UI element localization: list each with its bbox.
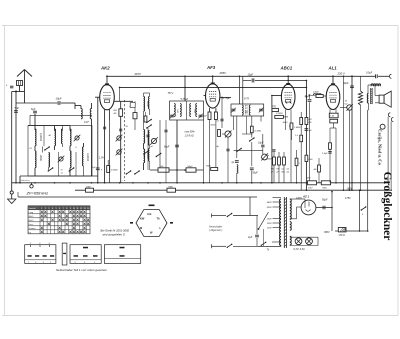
- wire osc vertical: [159, 120, 161, 170]
- tube ABC1: [281, 84, 295, 109]
- rail 267V: [107, 75, 375, 77]
- svg-text:NR: NR: [114, 110, 118, 112]
- svg-text:Gramm.: Gramm.: [29, 228, 37, 230]
- svg-text:3: 3: [48, 208, 49, 210]
- wire ABC1 top right: [288, 79, 306, 81]
- phono terminal 1: [388, 113, 390, 117]
- voltage selector arrow: [259, 212, 269, 229]
- svg-text:7400: 7400: [168, 185, 174, 188]
- svg-text:Erdbuchse: Erdbuchse: [20, 180, 31, 182]
- svg-text:( Allgemein ): ( Allgemein ): [209, 229, 223, 232]
- mains wire 1: [212, 215, 227, 217]
- svg-text:NR: NR: [309, 119, 313, 121]
- svg-text:11: 11: [77, 208, 79, 210]
- svg-text:1MΩ: 1MΩ: [206, 166, 211, 168]
- output transformer core: [370, 88, 372, 104]
- svg-text:2000: 2000: [39, 154, 43, 161]
- capacitor earth lead: [10, 85, 13, 87]
- svg-text:Ant: Ant: [147, 212, 151, 216]
- resistor x145 small: [144, 116, 147, 122]
- wafer box A: [25, 245, 56, 264]
- wire AF3 cathode pins: [209, 108, 211, 112]
- coil 0.003: [314, 94, 322, 95]
- resistor 770: [272, 108, 278, 111]
- capacitor 30uF on right column: [305, 128, 309, 130]
- trimmer T1: [59, 157, 63, 161]
- tone cap variable: [262, 154, 268, 160]
- resistor 1M: [290, 123, 293, 129]
- svg-text:5: 5: [56, 208, 57, 210]
- svg-text:4Ω: 4Ω: [309, 121, 312, 124]
- IF transformer 2 box: [231, 104, 264, 116]
- switch osc pack 1: [126, 171, 130, 174]
- svg-text:0,1MΩ: 0,1MΩ: [255, 131, 262, 133]
- osc coil column B2: [148, 149, 149, 162]
- wire y170 row: [150, 169, 204, 171]
- svg-text:2kΩ: 2kΩ: [308, 159, 313, 161]
- svg-text:1,5MΩ: 1,5MΩ: [294, 127, 301, 129]
- svg-text:110V: 110V: [267, 228, 272, 230]
- svg-text:2000: 2000: [146, 100, 149, 107]
- wire IF2 drops: [233, 116, 235, 130]
- switch box under AK2: [130, 103, 135, 108]
- wire transformer down: [367, 110, 369, 231]
- page edge bottom: [2, 315, 398, 317]
- wire osc right vertical: [165, 120, 167, 183]
- switch AF: [250, 138, 254, 141]
- resistor trio b: [278, 157, 281, 165]
- svg-text:kΩ: kΩ: [345, 104, 348, 106]
- trimmer osc: [151, 138, 156, 143]
- contact table: [28, 206, 90, 234]
- IF1 coil a: [174, 104, 175, 117]
- wire earth lead: [11, 92, 13, 191]
- terminal dial lamp: [30, 185, 33, 188]
- svg-text:10µF: 10µF: [248, 74, 254, 77]
- svg-text:1,5V: 1,5V: [99, 157, 104, 160]
- svg-text:0,1: 0,1: [217, 121, 220, 123]
- IF1 trimmer caps: [170, 114, 174, 116]
- switch osc: [156, 154, 160, 157]
- svg-text:0,003: 0,003: [313, 92, 319, 94]
- svg-text:0,0003: 0,0003: [39, 133, 43, 141]
- phono terminal 2: [391, 118, 393, 122]
- bus 185V: [75, 189, 390, 191]
- wire column 343.5: [343, 76, 345, 190]
- resistor NR col301: [300, 118, 303, 125]
- wire IF1 left drop: [176, 120, 178, 183]
- IF2 end caps: [232, 108, 236, 110]
- mains wire 2: [212, 245, 227, 247]
- speaker: [379, 95, 384, 103]
- coil L2: [35, 151, 36, 168]
- ABC1 diode marks: [285, 102, 287, 104]
- capacitor grid AK2 small: [119, 128, 122, 130]
- ground: [8, 199, 16, 204]
- IF1 coil c: [190, 104, 191, 117]
- coil pack box: [28, 126, 92, 177]
- capacitor x133 small: [103, 126, 106, 128]
- wire switch row: [234, 149, 263, 151]
- svg-text:1,5µF: 1,5µF: [322, 153, 328, 155]
- switch contact S1: [45, 147, 49, 150]
- svg-text:2400: 2400: [85, 185, 92, 188]
- svg-text:Kontakt: Kontakt: [29, 207, 36, 210]
- resistor heater chain: [86, 188, 94, 192]
- svg-text:4: 4: [52, 208, 53, 210]
- svg-text:max 50%: max 50%: [185, 131, 196, 134]
- capacitor near pot: [226, 148, 229, 150]
- transformer rect heater winding: [290, 222, 291, 231]
- resistor 1k: [158, 168, 169, 172]
- page edge right: [397, 26, 399, 316]
- wire bus3 to switch: [249, 197, 251, 216]
- svg-text:M: M: [140, 226, 142, 230]
- svg-text:1: 1: [41, 208, 42, 210]
- svg-text:0,1: 0,1: [30, 148, 33, 150]
- wire input coil top: [144, 92, 150, 94]
- tuning cap C-gang2: [117, 150, 121, 154]
- resistor 0.3M right of ABC1: [329, 143, 332, 150]
- coil L5: [70, 151, 71, 168]
- svg-text:wird ausgeliefert Ü: wird ausgeliefert Ü: [103, 232, 125, 236]
- resistor 0.1M: [250, 126, 253, 133]
- transformer primary: [280, 199, 281, 245]
- coil choke small: [237, 165, 238, 174]
- resistor pad: [133, 113, 137, 119]
- resistor AF3 k2: [214, 112, 217, 120]
- potentiometer: [225, 131, 231, 137]
- svg-text:1kΩ: 1kΩ: [160, 166, 164, 168]
- wire osc mid vertical: [147, 128, 149, 170]
- wire AK2 anode right: [114, 100, 133, 102]
- wire to coil pack: [16, 102, 57, 104]
- antenna series capacitor: [17, 81, 23, 86]
- switch mains 2: [227, 244, 231, 247]
- wafer box B: [70, 245, 101, 264]
- table x marks: [41, 211, 90, 233]
- IF1 coil d: [196, 104, 197, 117]
- resistor AL1 grid: [316, 95, 323, 98]
- resistor 4ohm col306: [305, 118, 308, 125]
- wire coil pack mid verticals: [43, 126, 45, 147]
- resistor trio a: [273, 157, 276, 165]
- IF2 coil b: [249, 105, 250, 115]
- resistor AL1 cathode: [329, 113, 338, 118]
- svg-text:6: 6: [59, 208, 60, 210]
- svg-text:50µF: 50µF: [202, 116, 208, 118]
- resistor 2k col306: [305, 155, 308, 161]
- junction dots rails: [119, 87, 121, 89]
- svg-text:4Ω: 4Ω: [114, 112, 117, 115]
- svg-text:Kurz: Kurz: [29, 224, 33, 226]
- resistor 7k: [186, 168, 196, 172]
- svg-text:7: 7: [63, 208, 64, 210]
- coil L3b: [49, 153, 50, 168]
- heater wires: [290, 236, 318, 238]
- svg-text:9: 9: [70, 208, 71, 210]
- svg-text:AZ 1: AZ 1: [302, 195, 310, 199]
- IF transformer 1 box: [170, 101, 204, 120]
- svg-text:265V: 265V: [219, 71, 228, 75]
- switch mains 1: [227, 214, 231, 217]
- capacitor 2uF mains: [255, 234, 259, 236]
- svg-text:267V: 267V: [134, 72, 143, 76]
- IF1 coil b: [180, 104, 181, 117]
- voltage taps: [273, 201, 282, 203]
- switch osc upper 2: [147, 125, 151, 128]
- IF2 core dashes: [245, 105, 247, 115]
- capacitor 2u: [235, 160, 239, 162]
- wire ABC1 heater drop: [284, 115, 286, 130]
- antenna coil T0 left winding: [81, 109, 82, 119]
- wire ABC1 pins down: [284, 110, 286, 116]
- pilot lamp 2: [306, 238, 313, 245]
- svg-text:KW: KW: [140, 217, 145, 221]
- IF2 coil a: [242, 105, 243, 115]
- wafer spacer N: [62, 243, 67, 265]
- transformer heater winding: [290, 236, 291, 245]
- terminal top right: [389, 74, 391, 78]
- wire IF2 feed pair: [239, 76, 241, 104]
- svg-text:5µF: 5µF: [15, 106, 20, 110]
- tube AK2: [100, 85, 115, 110]
- svg-text:240V: 240V: [266, 201, 273, 204]
- switch osc2: [144, 151, 148, 154]
- svg-text:13: 13: [84, 208, 86, 210]
- switch Tk: [261, 242, 265, 245]
- svg-text:0,1MΩ: 0,1MΩ: [111, 170, 118, 172]
- capacitor 50uF PSU: [322, 206, 324, 210]
- switch osc pack 2: [135, 171, 139, 174]
- bus chassis: [12, 182, 390, 184]
- svg-text:2µF: 2µF: [247, 236, 253, 239]
- wire upper shelf: [30, 114, 92, 116]
- hexagon socket: [136, 210, 167, 237]
- svg-text:220V: 220V: [266, 207, 273, 209]
- wire AK2 anode to rail: [106, 76, 108, 84]
- pilot lamp 1: [295, 238, 302, 245]
- resistor right small: [295, 158, 298, 166]
- antenna coil T0 right winding: [90, 109, 91, 119]
- svg-text:6µF: 6µF: [31, 108, 36, 111]
- svg-text:Czeija, Nissl u. Co: Czeija, Nissl u. Co: [378, 129, 383, 166]
- svg-text:ZF=658 kHz: ZF=658 kHz: [26, 191, 49, 196]
- wire ABC1 grid: [272, 95, 282, 97]
- wire HT right column: [351, 76, 353, 190]
- gang dashed link: [124, 100, 126, 181]
- wire AK2 pin2 long: [108, 120, 110, 183]
- svg-text:2µF: 2µF: [91, 167, 96, 169]
- svg-text:TA: TA: [157, 217, 160, 221]
- wire coil pack bottom: [20, 175, 98, 177]
- svg-text:AL1: AL1: [328, 65, 338, 70]
- svg-text:14: 14: [87, 208, 89, 210]
- svg-text:10µF: 10µF: [56, 97, 62, 101]
- svg-text:0,0003: 0,0003: [86, 153, 90, 161]
- wire coil to AK2 grid: [91, 119, 93, 176]
- rail screen 76V: [120, 86, 307, 88]
- switch contact S3: [69, 168, 73, 171]
- svg-text:5-75: 5-75: [244, 98, 249, 101]
- switch output: [361, 207, 365, 210]
- wire AL1 anode: [332, 76, 334, 84]
- osc coil column B1: [148, 131, 149, 146]
- svg-text:60µF: 60µF: [164, 146, 170, 149]
- hexagon left mark: [130, 222, 133, 224]
- resistor 0.1M ABC1: [275, 115, 284, 118]
- svg-text:50µF: 50µF: [188, 166, 194, 168]
- wire AVC top: [243, 79, 251, 81]
- tuning cap C-gang1: [117, 136, 121, 140]
- output transformer secondary: [367, 94, 368, 104]
- output transformer primary: [371, 84, 381, 85]
- svg-text:50µF: 50µF: [253, 173, 259, 175]
- wire AZ1 output: [316, 207, 332, 209]
- resistor 4ohm output: [318, 165, 321, 172]
- svg-text:ABC1: ABC1: [280, 65, 293, 70]
- wire AL1 pins: [329, 109, 331, 113]
- svg-text:Bei Gerät Nr 2051-3000: Bei Gerät Nr 2051-3000: [101, 228, 130, 232]
- wire HT vertical right: [331, 192, 333, 231]
- capacitor under AF3 mid: [220, 118, 223, 120]
- wire IF2 center tap: [245, 116, 247, 134]
- wire AF3 anode: [212, 76, 214, 83]
- coil L1: [35, 129, 36, 146]
- resistor 0.1M AK2: [107, 166, 110, 173]
- earth jack: [10, 191, 13, 194]
- input coil upper B: [148, 97, 149, 110]
- transformer core: [283, 197, 285, 248]
- oscillator coil A: [144, 130, 145, 144]
- capacitor 30uF HT: [350, 85, 354, 87]
- capacitor 60uF: [175, 144, 179, 146]
- svg-text:0,5µF: 0,5µF: [366, 71, 373, 74]
- capacitor 50uF: [250, 167, 254, 169]
- junction dots ABC1 right: [306, 96, 308, 98]
- bus mains: [18, 196, 257, 198]
- wire AK2 pin2: [108, 110, 110, 120]
- resistor trio c: [283, 157, 286, 165]
- svg-text:0,07: 0,07: [84, 121, 89, 124]
- svg-text:2: 2: [45, 208, 46, 210]
- field coil zigzag: [358, 91, 362, 105]
- svg-text:8: 8: [66, 208, 67, 210]
- capacitor 10uF antenna: [57, 101, 59, 105]
- wire antenna branch: [15, 92, 17, 183]
- input coil upper A: [144, 97, 145, 112]
- svg-text:10: 10: [73, 208, 75, 210]
- svg-text:1,5-5 kΩ: 1,5-5 kΩ: [185, 135, 194, 138]
- IF1 box divider: [185, 101, 187, 120]
- svg-text:Großglockner: Großglockner: [381, 172, 393, 241]
- antenna: [17, 70, 25, 77]
- page edge top: [2, 25, 398, 27]
- hexagon top mark: [149, 204, 155, 206]
- svg-text:2000: 2000: [210, 125, 216, 127]
- svg-text:30µF: 30µF: [343, 82, 349, 85]
- svg-text:0,1MΩ: 0,1MΩ: [276, 113, 283, 115]
- wire IF1 right drop: [203, 120, 205, 183]
- oscillator coil B: [144, 149, 145, 163]
- svg-text:12: 12: [80, 208, 82, 210]
- wire 2uF column: [256, 216, 258, 235]
- capacitor osc: [146, 134, 149, 136]
- wafer box C: [104, 245, 140, 264]
- jack circle: [380, 124, 385, 129]
- tube AF3: [206, 84, 220, 108]
- svg-text:140V: 140V: [296, 197, 302, 200]
- junction dots bus2: [306, 189, 308, 191]
- coil L4b: [61, 129, 62, 144]
- switch osc upper 1: [147, 120, 151, 123]
- tube AZ1: [301, 200, 316, 215]
- resistor 1M AF3 cathode: [211, 168, 218, 171]
- svg-text:170 Ω: 170 Ω: [339, 235, 345, 237]
- resistor 7400: [167, 188, 176, 192]
- wire 185V to switch column: [359, 190, 361, 231]
- wire AF3 grid: [204, 95, 206, 97]
- choke resistor hatched: [338, 228, 346, 232]
- wire AK2 cathode: [104, 110, 106, 183]
- svg-text:380V: 380V: [324, 231, 330, 234]
- tube AL1: [326, 85, 340, 110]
- wire AF3 anode right: [220, 96, 231, 98]
- svg-text:6,3V; 0,3A: 6,3V; 0,3A: [294, 248, 306, 251]
- resistor vol series: [218, 130, 221, 137]
- svg-text:AF3: AF3: [206, 65, 216, 70]
- coil L4: [70, 129, 71, 146]
- svg-text:125V: 125V: [267, 223, 273, 225]
- wire IF1 feed: [184, 76, 186, 101]
- wire HT to AZ1: [290, 198, 305, 200]
- transformer HT secondary: [290, 199, 291, 219]
- table header fill: [28, 206, 90, 210]
- svg-text:4Ω: 4Ω: [314, 168, 317, 171]
- wire AK2 grid left: [95, 96, 100, 98]
- switch tone: [237, 149, 241, 152]
- wire bottom HT: [335, 230, 368, 232]
- node antenna junction: [15, 91, 17, 93]
- coil L6: [82, 147, 83, 166]
- capacitor osc2: [164, 129, 167, 131]
- trimmer T2: [75, 136, 79, 140]
- svg-text:AK2: AK2: [100, 65, 110, 70]
- resistors on bus right: [308, 181, 317, 185]
- coil L3: [55, 129, 56, 146]
- hexagon right mark: [170, 222, 173, 224]
- svg-text:Lang: Lang: [29, 212, 33, 214]
- svg-text:175V: 175V: [345, 197, 351, 200]
- svg-text:150V: 150V: [267, 219, 273, 221]
- page edge left: [4, 26, 6, 316]
- svg-text:Netzschalter Teil 1 von unten: Netzschalter Teil 1 von unten gesehen: [56, 268, 107, 272]
- switch det: [130, 103, 134, 106]
- switch contact S2: [48, 168, 52, 171]
- resistor AF3 k1: [208, 112, 211, 120]
- wire ABC1 anode: [287, 76, 289, 84]
- capacitor 10uF AVC: [251, 78, 253, 82]
- svg-text:4000: 4000: [267, 158, 273, 161]
- wire coil pack top: [28, 125, 70, 127]
- resistor 1.5k col301: [300, 135, 303, 142]
- svg-text:Lg: Lg: [29, 232, 31, 234]
- capacitor on AK2 grid line: [96, 167, 100, 169]
- svg-text:50µF: 50µF: [322, 199, 328, 202]
- svg-text:230 V: 230 V: [337, 72, 346, 76]
